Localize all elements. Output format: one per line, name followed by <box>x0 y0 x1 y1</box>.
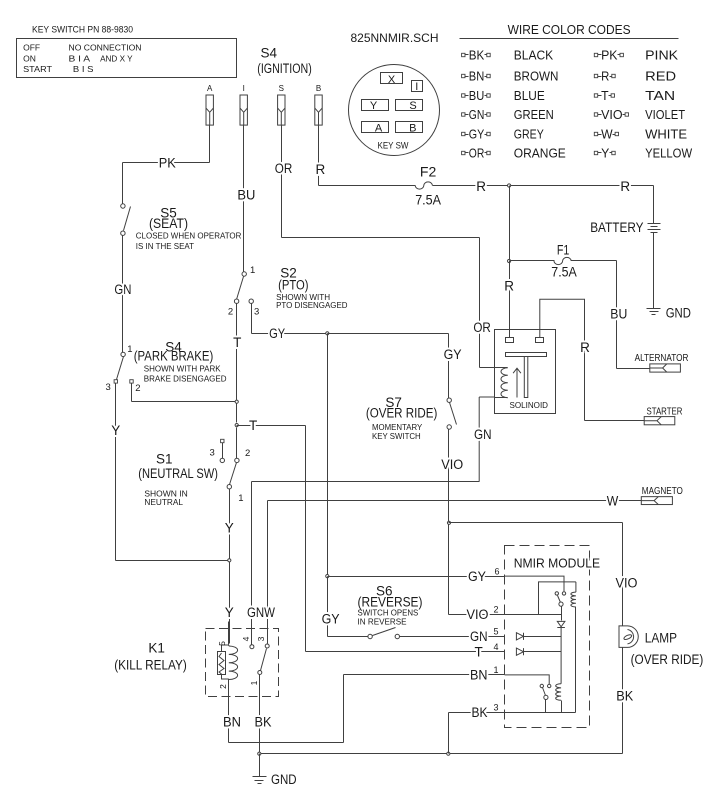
wire GY into S7 <box>448 334 450 399</box>
svg-text:BATTERY: BATTERY <box>590 220 643 235</box>
relay K1 dashed box <box>206 629 279 697</box>
svg-text:BRAKE DISENGAGED: BRAKE DISENGAGED <box>144 373 227 383</box>
svg-text:F1: F1 <box>557 243 570 258</box>
svg-text:PTO DISENGAGED: PTO DISENGAGED <box>276 300 347 310</box>
svg-text:ALTERNATOR: ALTERNATOR <box>635 353 689 364</box>
svg-text:GN: GN <box>474 427 492 442</box>
NMIR coil top to pin3 bus <box>575 607 577 713</box>
wire R down to starter <box>584 300 586 421</box>
svg-text:Y: Y <box>601 145 610 160</box>
node junction VIO split <box>447 521 450 524</box>
svg-text:1: 1 <box>249 680 259 685</box>
wire GY to NMIR pin6 <box>328 576 505 578</box>
svg-text:GND: GND <box>271 772 297 787</box>
svg-text:1: 1 <box>250 265 255 276</box>
svg-text:R: R <box>476 179 486 194</box>
wire T from S2 pin2 down <box>236 304 238 423</box>
wire GN from coil bottom <box>495 397 508 399</box>
svg-text:6: 6 <box>494 567 499 577</box>
switch S1 arm <box>230 463 237 485</box>
svg-text:PK: PK <box>159 156 176 171</box>
svg-text:PK: PK <box>601 47 618 62</box>
node junction Y <box>228 559 231 562</box>
connector STARTER <box>644 417 675 425</box>
NMIR module dashed box <box>505 546 590 728</box>
wire VIO from S7 down <box>448 430 450 615</box>
wire battery to ground <box>653 233 655 309</box>
legend code R = RED <box>594 74 597 77</box>
svg-text:GY: GY <box>322 612 340 627</box>
switch S5 arm <box>124 207 131 231</box>
wire PK horizontal <box>123 162 210 164</box>
wire GY horizontal <box>252 333 328 335</box>
svg-text:SHOWN WITH PARK: SHOWN WITH PARK <box>144 364 221 374</box>
svg-text:(NEUTRAL SW): (NEUTRAL SW) <box>138 466 218 481</box>
svg-text:R: R <box>601 68 609 83</box>
legend code OR = ORANGE <box>462 151 465 154</box>
svg-text:3: 3 <box>254 307 259 318</box>
connector pin I of S4 <box>240 95 247 125</box>
svg-text:OR: OR <box>469 145 485 160</box>
wire T down to NMIR pin4 <box>305 426 307 652</box>
fuse F2 <box>415 182 432 189</box>
legend code GY = GREY <box>462 132 465 135</box>
wire Y from S1 pin1 down to K1 <box>229 489 231 644</box>
svg-text:OFF: OFF <box>23 43 40 53</box>
svg-text:VIO: VIO <box>467 607 489 622</box>
diode D3 on pin 4 <box>516 648 523 655</box>
wire Y from S4 pin3 down <box>115 384 117 561</box>
svg-text:3: 3 <box>210 448 215 459</box>
svg-text:VIO: VIO <box>601 107 623 122</box>
wire R from pin B down <box>318 126 320 186</box>
wire BN from K1 coil down <box>228 680 230 743</box>
solenoid plunger <box>506 353 547 357</box>
connector MAGNETO <box>641 497 672 505</box>
svg-text:YELLOW: YELLOW <box>645 145 693 160</box>
svg-text:TAN: TAN <box>645 88 675 103</box>
ground (battery) <box>647 308 661 310</box>
svg-text:ORANGE: ORANGE <box>514 145 566 160</box>
NMIR pin5 internal wire <box>524 636 562 638</box>
svg-text:(OVER RIDE): (OVER RIDE) <box>366 406 438 421</box>
svg-text:X: X <box>388 74 396 86</box>
wire GN down to K1 pin4 <box>251 482 253 645</box>
wire GY down from junction <box>327 334 329 577</box>
svg-text:KEY SWITCH PN 88-9830: KEY SWITCH PN 88-9830 <box>32 25 133 35</box>
key switch face view (KEY SW) <box>349 65 440 156</box>
relay K1 contact <box>251 644 253 646</box>
NMIR pin3 internal bus <box>505 712 576 714</box>
connector ALTERNATOR <box>650 364 681 372</box>
svg-text:RED: RED <box>645 68 676 83</box>
svg-text:2: 2 <box>245 448 250 459</box>
svg-text:R: R <box>620 179 630 194</box>
svg-text:R: R <box>316 162 326 177</box>
svg-text:AND X Y: AND X Y <box>100 53 133 63</box>
wire BU to alternator connector <box>617 368 650 370</box>
svg-text:ON: ON <box>23 53 36 63</box>
svg-text:W: W <box>607 494 619 509</box>
svg-text:NEUTRAL: NEUTRAL <box>144 497 183 507</box>
svg-text:GY: GY <box>468 569 486 584</box>
svg-text:GY: GY <box>469 126 485 141</box>
wire OR horizontal <box>282 237 480 239</box>
switch S6 (REVERSE) <box>368 634 372 638</box>
svg-text:GREY: GREY <box>514 126 544 141</box>
connector pin B of S4 <box>315 95 322 125</box>
svg-text:STARTER: STARTER <box>647 407 683 418</box>
svg-text:Y: Y <box>225 605 234 620</box>
NMIR relay contact (top) <box>555 592 558 595</box>
svg-text:BK: BK <box>616 689 633 704</box>
svg-text:WHITE: WHITE <box>645 126 687 141</box>
svg-text:SOLINOID: SOLINOID <box>510 401 549 410</box>
wire pin A down <box>209 126 211 163</box>
wire W down to K1 pin3 <box>267 501 269 644</box>
switch S2 (PTO) <box>242 272 246 276</box>
svg-text:T: T <box>233 335 241 350</box>
svg-text:4: 4 <box>493 642 498 652</box>
svg-text:BU: BU <box>610 307 627 322</box>
svg-text:BROWN: BROWN <box>514 68 559 83</box>
svg-text:T: T <box>601 88 609 103</box>
svg-text:BU: BU <box>469 88 485 103</box>
svg-text:BLUE: BLUE <box>514 88 545 103</box>
svg-text:OR: OR <box>275 161 293 176</box>
lamp (over ride) <box>619 626 638 648</box>
wire BU down to alternator <box>616 261 618 369</box>
svg-text:GY: GY <box>444 347 462 362</box>
svg-text:7.5A: 7.5A <box>551 265 577 280</box>
wire W from magneto <box>268 500 642 502</box>
wire R to fuse F1 <box>510 260 555 262</box>
svg-text:W: W <box>601 126 613 141</box>
svg-text:B: B <box>409 122 416 134</box>
svg-text:1: 1 <box>127 344 132 355</box>
wire GY into S6 contact <box>328 636 368 638</box>
svg-text:T: T <box>475 645 483 660</box>
NMIR pin 6 internal wire <box>505 576 564 591</box>
svg-text:START: START <box>23 64 52 74</box>
wire down to S1 pin2 <box>236 428 238 459</box>
svg-text:B I S: B I S <box>73 64 94 74</box>
svg-text:BN: BN <box>223 715 241 730</box>
wire OR into solenoid coil <box>480 367 508 369</box>
node junction T / S4 pin2 <box>235 400 238 403</box>
NMIR coil (bottom) <box>556 684 561 701</box>
svg-text:BK: BK <box>469 47 485 62</box>
wire T horizontal <box>237 425 306 427</box>
wire VIO down to lamp <box>622 523 624 626</box>
svg-text:GN: GN <box>470 629 488 644</box>
solenoid terminal right <box>536 338 544 343</box>
svg-text:Y: Y <box>225 521 234 536</box>
wire R to battery <box>653 186 655 224</box>
svg-text:GND: GND <box>666 306 691 321</box>
node junction R / F1 <box>508 259 511 262</box>
solenoid terminal left <box>506 338 514 343</box>
svg-text:BU: BU <box>237 188 255 203</box>
svg-text:3: 3 <box>256 636 266 641</box>
NMIR contact common down <box>561 607 563 621</box>
wire VIO to lamp <box>449 522 623 524</box>
relay K1 contact arm <box>261 649 267 671</box>
wire R to fuse F2 <box>319 185 416 187</box>
legend code BK = BLACK <box>462 53 465 56</box>
wire BK bottom bus <box>260 753 623 755</box>
svg-text:GREEN: GREEN <box>514 107 554 122</box>
solenoid body box <box>495 330 556 414</box>
svg-text:GNW: GNW <box>247 605 275 620</box>
svg-text:(PTO): (PTO) <box>278 278 308 293</box>
svg-text:1: 1 <box>493 665 498 675</box>
switch S2 arm <box>237 277 244 300</box>
wire BU from F1 <box>572 260 617 262</box>
svg-text:PINK: PINK <box>645 47 678 62</box>
svg-text:2: 2 <box>135 383 140 394</box>
key switch truth table box <box>17 39 237 78</box>
wire S4 pin2 down <box>131 384 133 402</box>
wire BU from pin I to S2 <box>243 126 245 272</box>
svg-text:(IGNITION): (IGNITION) <box>257 61 312 76</box>
battery <box>648 223 661 225</box>
S4 pin 3 terminal <box>114 380 117 383</box>
svg-text:R: R <box>504 279 514 294</box>
NMIR coil (top) <box>538 582 576 592</box>
svg-text:GN: GN <box>469 107 485 122</box>
legend code W = WHITE <box>594 132 597 135</box>
node junction BK to NMIR <box>447 752 450 755</box>
wire OR from pin S down <box>281 126 283 238</box>
svg-text:LAMP: LAMP <box>645 631 677 646</box>
NMIR pin2 internal wire <box>539 614 562 616</box>
svg-text:NMIR MODULE: NMIR MODULE <box>514 557 600 571</box>
wire GN from solenoid down <box>479 397 494 481</box>
svg-text:I: I <box>243 84 245 93</box>
svg-text:WIRE COLOR CODES: WIRE COLOR CODES <box>508 23 631 37</box>
svg-text:(SEAT): (SEAT) <box>149 216 188 231</box>
svg-text:T: T <box>249 418 257 433</box>
S4 pin 2 terminal <box>130 380 133 383</box>
svg-text:825NNMIR.SCH: 825NNMIR.SCH <box>351 31 439 45</box>
svg-text:KEY SW: KEY SW <box>378 141 409 151</box>
svg-text:BLACK: BLACK <box>514 47 554 62</box>
wire GN horizontal to K1 <box>252 481 480 483</box>
switch S4 arm <box>117 357 124 380</box>
svg-text:KEY SWITCH: KEY SWITCH <box>372 431 421 441</box>
switch S1 (NEUTRAL SW) <box>235 458 239 462</box>
svg-text:GN: GN <box>114 282 131 297</box>
NMIR pin4 internal wire <box>524 651 562 653</box>
svg-text:BK: BK <box>472 705 488 720</box>
wire Y horizontal to S1 net <box>116 560 229 562</box>
legend code GN = GREEN <box>462 113 465 116</box>
wire GY from S2 pin3 down <box>251 304 253 334</box>
node junction T branch <box>235 424 238 427</box>
svg-text:Y: Y <box>111 423 120 438</box>
legend code VIO = VIOLET <box>594 113 597 116</box>
svg-text:3: 3 <box>493 703 498 713</box>
wire BK from K1 pin1 down <box>259 675 261 754</box>
svg-text:VIO: VIO <box>441 457 463 472</box>
svg-text:OR: OR <box>473 320 491 335</box>
connector pin S of S4 <box>278 95 285 125</box>
wire BK up to NMIR pin3 <box>448 713 450 754</box>
relay K1 thermal resistor <box>218 652 226 675</box>
relay K1 coil <box>229 646 238 680</box>
svg-text:4: 4 <box>241 636 251 641</box>
legend code Y = YELLOW <box>594 151 597 154</box>
diode D1 (vertical) <box>557 621 565 683</box>
svg-text:(PARK BRAKE): (PARK BRAKE) <box>134 349 214 364</box>
svg-text:IN REVERSE: IN REVERSE <box>358 616 407 626</box>
wire GN from S5 to S4 pin1 <box>122 236 124 353</box>
node junction R bus <box>508 184 511 187</box>
S1 pin 3 terminal <box>221 439 224 442</box>
svg-text:VIOLET: VIOLET <box>645 107 685 122</box>
wire VIO to NMIR pin2 <box>449 614 539 616</box>
wire R bus to battery <box>433 185 654 187</box>
svg-text:(OVER RIDE): (OVER RIDE) <box>631 652 704 667</box>
NMIR relay contact (bottom) <box>540 684 543 687</box>
node junction BK / GND <box>258 752 261 755</box>
switch S5 (SEAT) <box>121 204 125 208</box>
svg-text:BK: BK <box>255 715 272 730</box>
switch S4 (PARK BRAKE) <box>121 352 125 356</box>
wire R down <box>509 186 511 261</box>
svg-text:S1: S1 <box>156 452 173 467</box>
wire BN horizontal <box>229 742 344 744</box>
svg-text:5: 5 <box>217 641 227 646</box>
wire to ground <box>259 754 261 777</box>
svg-text:B I A: B I A <box>69 53 91 63</box>
svg-text:K1: K1 <box>148 641 165 656</box>
wire Y into K1 coil <box>228 622 230 645</box>
switch S7 arm <box>450 403 457 425</box>
connector pin A of S4 <box>206 95 213 125</box>
svg-text:IS IN THE SEAT: IS IN THE SEAT <box>136 241 195 251</box>
NMIR contact common to pin3 <box>545 700 547 713</box>
svg-text:3: 3 <box>106 382 111 393</box>
svg-text:BN: BN <box>469 68 485 83</box>
legend code BU = BLUE <box>462 94 465 97</box>
svg-text:2: 2 <box>218 684 228 689</box>
wire BK to NMIR pin3 <box>449 712 505 714</box>
wire R to solenoid terminal <box>509 261 511 338</box>
svg-text:R: R <box>580 340 590 355</box>
wire GN from S6 to NMIR pin5 <box>400 636 505 638</box>
svg-text:CLOSED WHEN OPERATOR: CLOSED WHEN OPERATOR <box>136 231 242 241</box>
wire BN to NMIR pin1 <box>344 674 505 676</box>
wire PK down to S5 <box>122 163 124 204</box>
svg-text:S: S <box>279 84 284 93</box>
wire S4 pin2 to T net <box>132 401 237 403</box>
svg-text:VIO: VIO <box>616 576 638 591</box>
svg-text:F2: F2 <box>420 165 436 180</box>
wire OR down to solenoid <box>479 238 481 368</box>
wire BK from lamp down <box>622 648 624 754</box>
svg-text:(KILL RELAY): (KILL RELAY) <box>114 657 187 672</box>
diode D2 on pin 5 <box>516 633 523 640</box>
svg-text:MAGNETO: MAGNETO <box>642 486 683 497</box>
svg-text:I: I <box>415 81 418 93</box>
node junction GY split <box>326 332 329 335</box>
svg-text:S4: S4 <box>261 46 278 61</box>
node junction GY split to NMIR <box>326 575 329 578</box>
wire GY to S7 <box>328 333 449 335</box>
wire R to starter connector <box>585 420 645 422</box>
wire T to NMIR pin4 <box>306 651 505 653</box>
legend code T = TAN <box>594 94 597 97</box>
svg-text:5: 5 <box>493 627 498 637</box>
svg-text:B: B <box>316 84 321 93</box>
wire R solenoid right terminal up <box>540 299 585 338</box>
svg-text:GY: GY <box>269 326 285 341</box>
fuse F1 <box>554 257 571 264</box>
svg-text:A: A <box>375 122 383 134</box>
svg-text:NO CONNECTION: NO CONNECTION <box>69 43 142 53</box>
svg-text:S: S <box>409 100 416 112</box>
switch S6 arm <box>373 628 396 636</box>
solenoid actuation arrow <box>513 368 521 397</box>
wire BN up to NMIR pin1 <box>343 675 345 743</box>
svg-text:Y: Y <box>370 100 378 112</box>
solenoid coil <box>501 368 508 398</box>
svg-text:A: A <box>207 84 213 93</box>
svg-text:2: 2 <box>493 605 498 615</box>
svg-text:BN: BN <box>470 668 488 683</box>
legend code BN = BROWN <box>462 74 465 77</box>
svg-text:1: 1 <box>238 493 243 504</box>
NMIR pin2 riser <box>538 582 540 615</box>
ground (bottom) <box>253 776 267 778</box>
svg-text:2: 2 <box>228 307 233 318</box>
legend code PK = PINK <box>594 53 597 56</box>
svg-text:7.5A: 7.5A <box>415 193 441 208</box>
NMIR pin 1 internal wire <box>505 675 550 684</box>
wire GY down to S6 <box>327 577 329 637</box>
